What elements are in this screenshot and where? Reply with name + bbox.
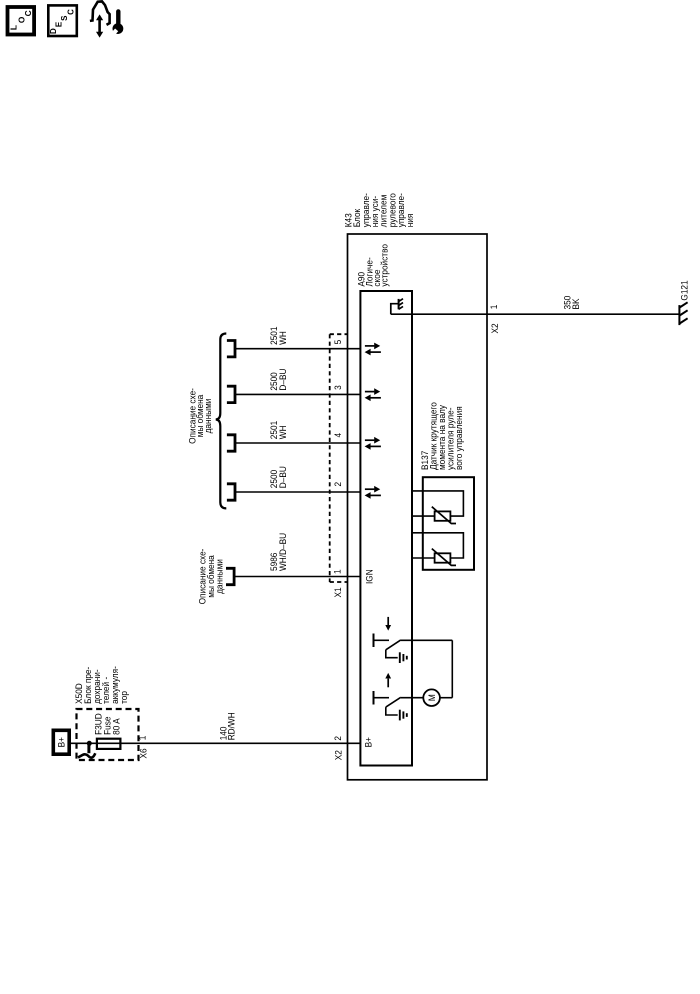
svg-text:D–BU: D–BU (277, 466, 288, 488)
svg-text:X2: X2 (490, 323, 501, 333)
svg-text:данными: данными (203, 399, 214, 434)
svg-text:E: E (55, 21, 64, 27)
svg-text:D: D (49, 28, 58, 34)
svg-text:80 A: 80 A (111, 718, 122, 735)
svg-text:C: C (67, 9, 76, 15)
svg-text:X1: X1 (333, 587, 344, 597)
svg-text:WH: WH (277, 331, 288, 345)
svg-text:1: 1 (137, 736, 148, 741)
svg-text:устройство: устройство (379, 244, 390, 287)
svg-text:BK: BK (570, 298, 581, 309)
svg-text:RD/WH: RD/WH (226, 712, 237, 740)
svg-text:WH: WH (277, 425, 288, 439)
svg-text:тор: тор (118, 691, 129, 704)
svg-text:1: 1 (332, 569, 343, 574)
svg-text:B+: B+ (363, 737, 374, 747)
svg-text:вого управления: вого управления (454, 406, 465, 470)
svg-text:G121: G121 (679, 280, 690, 300)
svg-text:1: 1 (489, 305, 500, 310)
svg-text:WH/D–BU: WH/D–BU (277, 533, 288, 571)
svg-text:3: 3 (333, 385, 344, 390)
svg-text:данными: данными (214, 559, 225, 594)
svg-text:M: M (427, 694, 438, 701)
svg-text:2: 2 (333, 482, 344, 487)
svg-text:X2: X2 (333, 750, 344, 760)
svg-text:IGN: IGN (364, 569, 375, 584)
svg-text:D–BU: D–BU (277, 369, 288, 391)
svg-text:5: 5 (333, 340, 344, 345)
svg-text:X6: X6 (138, 748, 149, 758)
svg-text:C: C (23, 10, 33, 16)
svg-text:L: L (8, 25, 18, 30)
svg-text:2: 2 (332, 736, 343, 741)
svg-text:B+: B+ (56, 737, 67, 747)
svg-text:4: 4 (333, 433, 344, 438)
svg-text:ния: ния (405, 213, 416, 227)
